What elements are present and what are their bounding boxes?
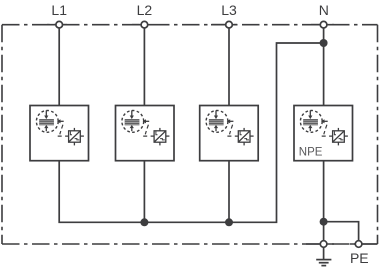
svg-text:L1: L1 — [51, 2, 67, 18]
SPD module box 1 (L1) — [30, 106, 89, 161]
junction dot bus L3 — [225, 218, 233, 226]
terminal earth — [320, 241, 327, 248]
SPD module box 3 (L3) — [200, 106, 259, 161]
terminal N — [320, 21, 327, 28]
SPD module box 2 (L2) — [116, 106, 175, 161]
wire SPD box4 bottom to earth terminal — [323, 161, 325, 245]
ground symbol — [316, 248, 331, 266]
boundary dash-dot frame left line — [1, 25, 3, 244]
boundary dash-dot frame right line — [377, 25, 379, 244]
terminal L3 — [226, 21, 233, 28]
SPD module box 4 (N-PE) — [294, 106, 353, 161]
wire L3 terminal to SPD box 3 — [228, 25, 230, 106]
terminal L1 — [56, 21, 63, 28]
svg-text:N: N — [319, 2, 329, 18]
junction dot at N — [320, 39, 328, 47]
terminal PE — [355, 241, 362, 248]
solid segment of top line through L1 — [47, 24, 67, 26]
solid segment of top line through L3 — [211, 24, 237, 26]
boundary dash-dot frame bottom line — [2, 243, 378, 245]
wire N terminal to SPD box 4 — [323, 25, 325, 106]
svg-text:PE: PE — [350, 250, 369, 266]
wire SPD box3 bottom to bus — [228, 161, 230, 223]
junction dot bus L2 — [140, 218, 148, 226]
wire L2 terminal to SPD box 2 — [143, 25, 145, 106]
wire SPD box2 bottom to bus — [143, 161, 145, 223]
wire SPD box1 bottom to bus and bus riser to N junction — [59, 43, 323, 222]
boundary dash-dot frame top line — [2, 24, 378, 26]
wire L1 terminal to SPD box 1 — [58, 25, 60, 106]
svg-text:L3: L3 — [221, 2, 237, 18]
svg-text:NPE: NPE — [299, 146, 323, 158]
svg-text:L2: L2 — [137, 2, 153, 18]
solid segment of top line through N — [311, 24, 334, 26]
solid segment of bottom line through earth terminal — [306, 243, 334, 245]
solid segment of top line through L2 — [132, 24, 152, 26]
junction dot PEN split — [320, 218, 328, 226]
wire branch to PE terminal — [324, 222, 359, 244]
terminal L2 — [141, 21, 148, 28]
solid segment of bottom line through PE terminal — [350, 243, 378, 245]
